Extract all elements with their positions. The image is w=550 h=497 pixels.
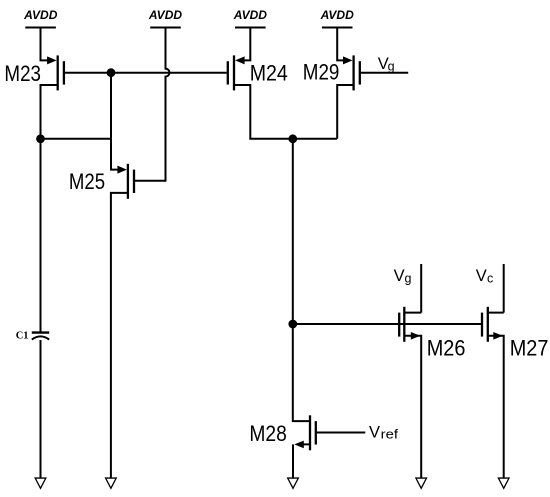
- svg-text:M23: M23: [4, 61, 41, 86]
- svg-text:M26: M26: [427, 336, 466, 361]
- svg-text:M25: M25: [69, 169, 105, 194]
- svg-text:V: V: [369, 424, 380, 442]
- svg-text:g: g: [388, 60, 395, 74]
- svg-text:AVDD: AVDD: [148, 8, 183, 22]
- svg-text:V: V: [394, 267, 405, 285]
- svg-text:AVDD: AVDD: [233, 8, 268, 22]
- svg-text:M29: M29: [303, 59, 340, 84]
- svg-text:M24: M24: [250, 61, 288, 86]
- svg-text:M27: M27: [510, 336, 549, 361]
- svg-text:AVDD: AVDD: [23, 8, 58, 22]
- svg-text:ref: ref: [381, 428, 399, 442]
- svg-text:AVDD: AVDD: [320, 8, 355, 22]
- svg-text:C1: C1: [16, 330, 29, 342]
- svg-text:V: V: [476, 267, 487, 285]
- svg-text:g: g: [405, 271, 412, 285]
- svg-text:c: c: [487, 271, 493, 285]
- svg-text:M28: M28: [249, 421, 286, 446]
